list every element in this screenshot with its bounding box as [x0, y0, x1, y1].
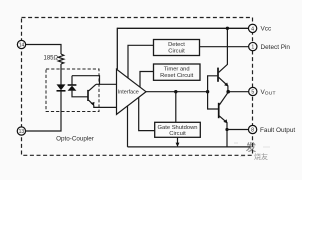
node dot B: [206, 90, 209, 93]
pin 5 Vout: [249, 87, 257, 95]
wire apex to gate shutdown top: [175, 92, 177, 123]
svg-text:Circuit: Circuit: [169, 131, 186, 137]
wire triangle bottom to rail: [127, 106, 129, 147]
svg-text:Detect Pin: Detect Pin: [261, 44, 291, 51]
wire detect to triangle: [128, 45, 154, 78]
gate shutdown ground arrow: [177, 137, 179, 143]
wire timer to triangle: [140, 72, 154, 88]
pin 8 Fault Output: [248, 125, 256, 133]
svg-text:4: 4: [251, 27, 254, 33]
svg-text:185Ω: 185Ω: [44, 56, 59, 62]
photodiode top rail: [72, 76, 100, 85]
resistor R1 185ohm: [58, 54, 64, 64]
svg-text:Vcc: Vcc: [261, 26, 272, 33]
IC box top rail (Vcc): [117, 27, 248, 29]
transistor Q3 (lower): [208, 92, 218, 109]
timer and reset circuit block: [154, 64, 201, 80]
svg-text:8: 8: [251, 128, 254, 134]
svg-text:Opto-Coupler: Opto-Coupler: [56, 136, 94, 143]
svg-text:烧友: 烧友: [254, 152, 268, 161]
opto-coupler dashed box: [46, 69, 99, 112]
pin 4 Vcc: [248, 24, 256, 32]
pin 13: [17, 127, 25, 135]
junction dot Vcc: [226, 27, 229, 30]
svg-text:Reset Circuit: Reset Circuit: [160, 73, 194, 79]
wire LED to pin13: [26, 91, 61, 131]
wire detect to pin1: [200, 46, 249, 48]
wire triangle to gate shutdown: [139, 97, 155, 130]
pin 14: [17, 40, 25, 48]
collector wire to interface: [96, 83, 117, 85]
LED D1: [57, 84, 66, 90]
svg-text:5: 5: [251, 90, 254, 96]
svg-text:Interface: Interface: [118, 90, 139, 96]
phototransistor Q1: [87, 90, 89, 101]
wire photodiode to base: [72, 91, 88, 97]
svg-text:Circuit: Circuit: [168, 49, 185, 55]
svg-text:Gate Shutdown: Gate Shutdown: [158, 125, 198, 131]
wire pin14 to resistor: [26, 45, 61, 55]
apex wire: [146, 91, 208, 93]
IC box left edge: [116, 28, 118, 70]
transistor Q2 (upper): [208, 76, 218, 92]
pin 1 Detect Pin: [249, 42, 257, 50]
node dot A: [174, 90, 177, 93]
gate shutdown circuit block: [155, 122, 201, 137]
emitter wire to interface: [94, 105, 117, 107]
svg-text:14: 14: [19, 43, 25, 49]
wire to pin8: [227, 129, 248, 131]
wire resistor to LED: [60, 64, 62, 85]
svg-text:Detect: Detect: [168, 42, 185, 48]
detect circuit block: [154, 40, 200, 56]
photodiode D2: [71, 76, 73, 85]
op-amp U1 interface triangle: [117, 69, 147, 114]
svg-text:13: 13: [19, 129, 25, 135]
svg-text:1: 1: [251, 45, 254, 51]
wire node to pin5: [228, 91, 248, 93]
svg-text:发: 发: [245, 141, 257, 154]
svg-text:Fault Output: Fault Output: [260, 127, 295, 134]
watermark: [234, 141, 270, 161]
junction dot fault: [225, 128, 228, 131]
svg-text:Timer and: Timer and: [164, 67, 190, 73]
package outline (dashed): [22, 18, 253, 156]
output node dot: [226, 90, 230, 94]
IC box bottom rail: [128, 146, 251, 148]
